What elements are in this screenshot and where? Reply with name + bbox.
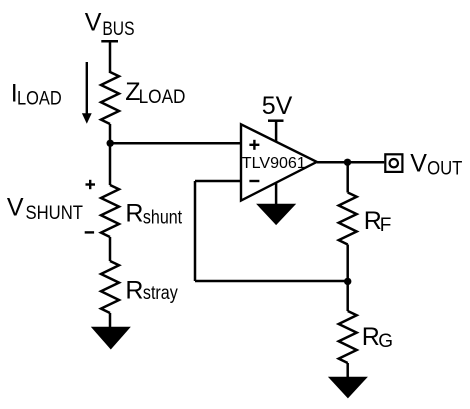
svg-text:TLV9061: TLV9061 xyxy=(242,155,306,172)
wire 5V bar to op-amp V+ xyxy=(275,121,278,142)
pin - mark xyxy=(249,180,259,182)
plus polarity mark VSHUNT xyxy=(86,180,96,189)
ground (op-amp) xyxy=(256,204,296,225)
svg-text:R: R xyxy=(125,200,143,228)
svg-text:G: G xyxy=(378,331,393,352)
svg-text:LOAD: LOAD xyxy=(139,87,186,108)
wire node OUT down to RF xyxy=(346,162,349,192)
minus polarity mark VSHUNT xyxy=(85,231,94,233)
node B junction dot xyxy=(344,278,351,285)
ground (left) xyxy=(91,327,131,350)
wire RG to ground xyxy=(346,363,349,378)
terminal VOUT xyxy=(385,154,402,172)
resistor RF xyxy=(339,193,357,245)
supply bar 5V xyxy=(268,119,284,122)
node OUT junction dot xyxy=(344,159,351,166)
resistor Rstray xyxy=(101,261,119,313)
label RF xyxy=(364,207,392,236)
wire Rstray to ground xyxy=(109,313,112,329)
wire node A down to Rshunt xyxy=(109,143,112,185)
resistor RG xyxy=(339,311,357,363)
terminal bar VBUS xyxy=(101,40,118,43)
wire node A to op-amp plus input xyxy=(110,142,241,145)
wire RF to node B xyxy=(346,245,349,282)
wire node B to RG xyxy=(346,281,349,311)
wire feedback vertical xyxy=(194,181,197,281)
svg-text:R: R xyxy=(362,323,380,351)
svg-text:V: V xyxy=(410,149,427,177)
svg-text:LOAD: LOAD xyxy=(17,89,62,110)
ground (bottom right) xyxy=(328,377,368,399)
wire feedback horizontal to node B xyxy=(195,280,348,283)
label Rshunt xyxy=(125,200,182,229)
label ILOAD xyxy=(11,80,62,110)
pin + mark xyxy=(249,144,259,146)
wire Rshunt to Rstray xyxy=(109,237,112,261)
svg-text:V: V xyxy=(7,194,24,222)
resistor ZLOAD xyxy=(101,72,119,124)
node A junction dot xyxy=(107,140,114,147)
label VSHUNT xyxy=(7,194,83,224)
label ZLOAD xyxy=(125,78,185,108)
label VOUT xyxy=(410,149,462,179)
resistor Rshunt xyxy=(101,185,119,237)
svg-text:F: F xyxy=(380,215,392,236)
svg-text:OUT: OUT xyxy=(427,159,463,180)
label VBUS xyxy=(85,9,135,41)
current arrow ILOAD xyxy=(82,62,92,124)
wire op-amp output xyxy=(317,161,385,164)
wire VBUS to ZLOAD xyxy=(109,41,112,73)
svg-text:5V: 5V xyxy=(262,92,293,120)
label Rstray xyxy=(125,276,178,304)
svg-text:V: V xyxy=(85,9,102,37)
wire ZLOAD to node A xyxy=(109,124,112,143)
wire minus input xyxy=(195,180,241,183)
op-amp U1 TLV9061 xyxy=(241,124,317,200)
svg-text:stray: stray xyxy=(143,283,178,304)
svg-text:R: R xyxy=(125,276,143,304)
label RG xyxy=(362,323,393,352)
wire op-amp V- to ground xyxy=(275,183,278,205)
svg-text:BUS: BUS xyxy=(102,19,134,40)
svg-text:shunt: shunt xyxy=(143,207,183,228)
svg-text:SHUNT: SHUNT xyxy=(26,203,84,224)
